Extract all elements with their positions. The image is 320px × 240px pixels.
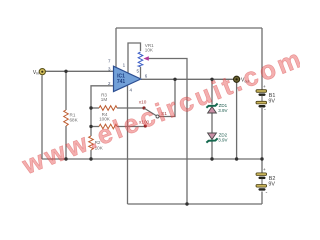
op-amp U1 triangle	[114, 66, 141, 91]
switch S1 x100 contact	[144, 124, 147, 127]
svg-text:741: 741	[117, 79, 126, 85]
wire ZD2 bottom to mid rail	[211, 141, 213, 159]
wire R3 right lead to x10 contact	[117, 107, 144, 109]
wire mid rail 0V	[42, 158, 262, 160]
terminal Vout	[234, 76, 240, 82]
wire top rail V+	[116, 27, 262, 29]
wire R4 right lead to x100 contact	[117, 126, 145, 128]
resistor R1 zigzag	[64, 110, 69, 126]
svg-text:Vin: Vin	[33, 70, 39, 76]
node R3 left junction	[89, 106, 92, 109]
node ZD2 bottom junction	[210, 157, 213, 160]
battery B1	[256, 84, 267, 113]
wire pin2 to feedback node	[91, 86, 114, 136]
wire op-amp output to Vout	[141, 78, 234, 80]
svg-text:3.9V: 3.9V	[218, 108, 227, 113]
node zener top junction	[210, 78, 213, 81]
wire B2 top lead	[261, 159, 263, 173]
node R4 left junction	[89, 125, 92, 128]
node S1 output junction	[173, 78, 176, 81]
resistor R3 zigzag	[99, 106, 117, 111]
svg-text:+: +	[263, 167, 266, 172]
node R1 top junction	[64, 70, 67, 73]
svg-text:68K: 68K	[70, 118, 79, 123]
wire zener branch top	[211, 79, 213, 104]
svg-text:3.9V: 3.9V	[218, 137, 227, 142]
svg-text:9V: 9V	[268, 182, 275, 188]
node Vout rail junction	[235, 157, 238, 160]
wire S1 pole to output node	[159, 79, 175, 116]
wire Vin down to mid rail	[41, 76, 43, 160]
switch S1 x10 contact	[142, 106, 145, 109]
wire R3 left lead	[91, 107, 99, 109]
wire bottom rail V-	[128, 203, 263, 205]
wire pin7 to top rail	[115, 28, 117, 68]
svg-text:1M: 1M	[101, 97, 108, 102]
wire R1 top lead	[65, 71, 67, 110]
svg-text:10K: 10K	[145, 48, 154, 53]
wire VR1 wiper to bottom rail	[149, 59, 188, 205]
svg-text:-: -	[264, 107, 266, 113]
node R1 bottom junction	[64, 157, 67, 160]
node R2 bottom junction	[89, 157, 92, 160]
terminal Vin	[39, 69, 45, 75]
wire R4 left lead	[91, 126, 99, 128]
wire B2 bottom lead	[261, 192, 263, 205]
wire pin4 down to bottom rail	[127, 85, 129, 204]
potentiometer VR1 zigzag	[138, 52, 143, 67]
wire right drop top rail to B1	[261, 28, 263, 90]
wire R1 bottom lead	[65, 126, 67, 159]
wire Vin to pin3	[46, 70, 114, 72]
svg-text:-: -	[266, 190, 268, 196]
wire R2 bottom lead	[90, 150, 92, 159]
wire pin1 up to VR1 top	[128, 43, 141, 74]
wire between ZD1 and ZD2	[211, 113, 213, 133]
switch S1 pole	[156, 115, 159, 118]
resistor R2 zigzag	[89, 136, 94, 150]
wire Vout down to mid rail	[236, 83, 238, 159]
potentiometer VR1 wiper arrow	[143, 56, 148, 61]
svg-text:9V: 9V	[268, 98, 275, 104]
node wiper bottom junction	[185, 202, 188, 205]
zener diode ZD1	[208, 107, 217, 113]
zener diode ZD2	[208, 133, 217, 139]
resistor R4 zigzag	[99, 124, 117, 129]
node battery mid junction	[260, 157, 263, 160]
switch S1 arm	[145, 108, 157, 115]
junction node dots	[64, 70, 263, 206]
battery B2	[256, 167, 268, 196]
wire B1 bottom to mid rail	[261, 108, 263, 159]
wire VR1 bottom to pin5	[140, 67, 142, 78]
